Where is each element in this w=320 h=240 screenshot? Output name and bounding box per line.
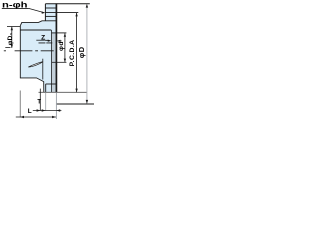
L dimension line with arrows [16, 116, 56, 118]
svg-text:φD: φD [77, 46, 86, 58]
hub top edge with taper [20, 21, 56, 26]
lower-right extension line [56, 103, 94, 105]
bore line [20, 29, 51, 31]
hub left face [19, 26, 21, 79]
pipe axis dash-dot centerline [4, 50, 54, 52]
flange body fill [20, 4, 57, 93]
svg-text:φD₁: φD₁ [7, 32, 14, 45]
weld notch lines [46, 83, 57, 85]
T dimension line with arrows [33, 110, 62, 112]
svg-text:P.C.D.A: P.C.D.A [69, 40, 76, 67]
phiD dimension [86, 4, 88, 104]
plate back extension line [45, 92, 47, 111]
bolt hole top line [45, 7, 56, 9]
centerline tick left [5, 47, 10, 49]
Z right outside arrow [58, 40, 62, 42]
plate left face [44, 4, 46, 21]
leader to bolt hole [29, 8, 44, 12]
hub bottom edge [20, 78, 44, 92]
phid extension line [52, 32, 67, 34]
bolt hole bottom line [45, 15, 56, 17]
pipe-end extension line [39, 89, 41, 111]
phid dimension [52, 61, 66, 63]
bore step vertical [50, 30, 52, 92]
bolt hole center line / PCD extension [45, 12, 78, 14]
background [0, 0, 94, 127]
Z leader line with arrow [36, 39, 45, 41]
PCD A dimension [76, 13, 78, 92]
flange face (thick right edge) [55, 3, 57, 92]
pipe break sliver [28, 62, 43, 67]
bottom baseline (plate bottom + extension) [39, 91, 87, 93]
n-phi-h label underline [2, 7, 29, 9]
pipe end vertical [42, 59, 44, 80]
svg-text:L: L [28, 108, 32, 115]
phiD1 dimension line [11, 27, 13, 48]
flange face extension line [55, 93, 57, 120]
svg-text:φd: φd [58, 41, 65, 51]
gasket/pipe-end gray strip [52, 33, 56, 92]
hub face extension line [19, 91, 21, 118]
left extension line (pipe OD) [7, 26, 20, 28]
dash-dot center line [39, 42, 53, 44]
svg-text:T: T [37, 99, 41, 105]
outline: plate top edge + phiD top extension [45, 3, 89, 5]
